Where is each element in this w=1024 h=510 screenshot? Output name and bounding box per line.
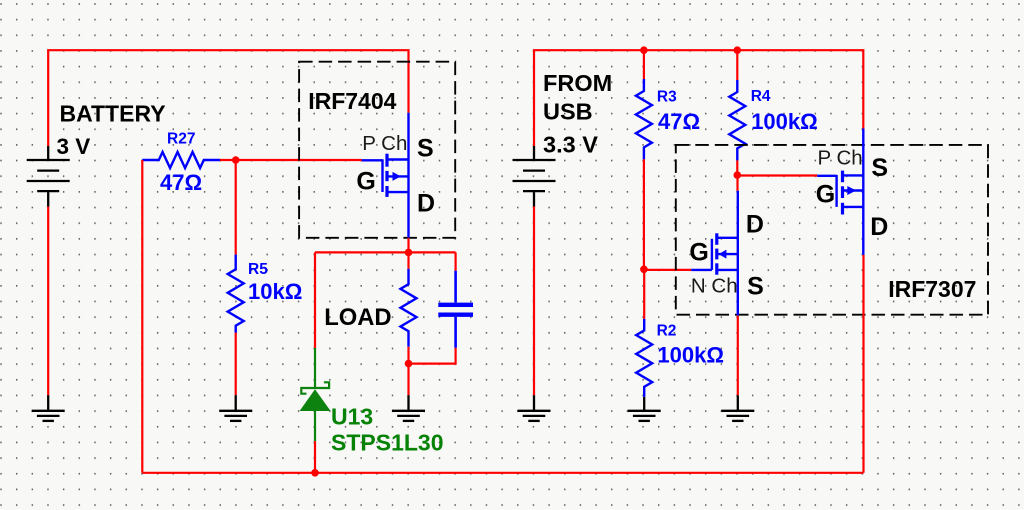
svg-text:G: G (356, 167, 375, 195)
svg-text:P Ch: P Ch (362, 132, 407, 155)
svg-text:BATTERY: BATTERY (60, 101, 166, 127)
wire load resistor bottom (407, 347, 409, 364)
svg-text:R3: R3 (657, 88, 677, 105)
diode U13 STPS1L30 schottky (301, 348, 329, 441)
wire junction down to R5 (235, 160, 237, 255)
resistor R3 (636, 79, 652, 159)
svg-text:S: S (747, 273, 764, 301)
wire battery V1 minus to ground (47, 207, 49, 396)
svg-text:S: S (871, 154, 888, 182)
resistor R4 (729, 80, 745, 160)
svg-text:LOAD: LOAD (324, 304, 391, 331)
wire Q1 drain to load node (407, 238, 409, 253)
wire bottom net (142, 472, 863, 474)
ground GND5 R2 (628, 397, 661, 421)
wire R27 left to bottom net (141, 160, 143, 473)
wire node to Q2 gate (737, 174, 817, 176)
svg-text:G: G (689, 239, 708, 267)
transistor Q1 IRF7404 P-MOSFET (362, 113, 409, 238)
wire R27 right to Q1 gate (220, 159, 362, 161)
svg-text:D: D (417, 190, 435, 218)
ground GND3 (392, 395, 425, 421)
wire load top rail (315, 251, 456, 253)
svg-text:R27: R27 (167, 131, 195, 148)
wire R5 bottom to ground (235, 333, 237, 396)
svg-text:R2: R2 (657, 323, 677, 340)
svg-text:R4: R4 (751, 88, 771, 105)
svg-text:47Ω: 47Ω (658, 109, 700, 134)
node junction R3/R2/Q3 gate (640, 266, 648, 274)
svg-text:IRF7404: IRF7404 (308, 88, 396, 114)
resistor R5 (228, 255, 244, 333)
IRF7404 dashed box (299, 62, 455, 238)
wire load bottom to ground (407, 364, 409, 396)
wire diode anode to bottom net (314, 441, 316, 473)
wire node down to Q3 drain (736, 175, 738, 191)
svg-text:100kΩ: 100kΩ (751, 109, 818, 134)
svg-text:USB: USB (543, 98, 593, 124)
svg-text:3 V: 3 V (57, 134, 91, 159)
wire gate node down to R2 (643, 269, 645, 319)
svg-text:STPS1L30: STPS1L30 (331, 430, 444, 456)
svg-text:N Ch: N Ch (691, 274, 738, 297)
wire USB VCC net: battery V2 to top rail to Q2 source (534, 50, 863, 146)
wire Q3 source to ground (737, 316, 739, 396)
resistor R2 (636, 319, 652, 397)
node junction R4/Q2 gate/Q3 drain (734, 171, 742, 179)
node junction diode bottom (311, 469, 319, 477)
ground GND4 (518, 395, 551, 421)
ground GND1 (32, 395, 65, 421)
wire gate node to Q3 gate (644, 269, 691, 271)
wire battery V2 minus to ground (533, 207, 535, 396)
wire cap bottom to load bottom junction (409, 348, 456, 364)
ground GND2 (219, 395, 252, 421)
svg-text:100kΩ: 100kΩ (657, 343, 724, 368)
battery V1 3V (27, 146, 70, 207)
battery V2 3.3V (513, 146, 556, 207)
transistor Q3 IRF7307 N-MOSFET (691, 191, 738, 316)
node junction top R4 (734, 46, 742, 54)
wire top rail to R4 (736, 50, 738, 80)
node junction load top (405, 249, 413, 257)
resistor LOAD (401, 269, 417, 347)
node junction top R3 (640, 46, 648, 54)
wire load center top (407, 252, 409, 268)
svg-text:S: S (417, 135, 434, 163)
svg-text:R5: R5 (248, 261, 268, 278)
wire cap branch top (455, 252, 457, 270)
wire load left down to diode (314, 252, 316, 348)
wire R3 bottom to gate node (643, 159, 645, 269)
wire Q2 drain down to bottom net (862, 255, 864, 473)
node junction load bottom (405, 360, 413, 368)
svg-text:3.3 V: 3.3 V (543, 132, 598, 158)
resistor R27 (142, 152, 220, 168)
svg-text:47Ω: 47Ω (160, 170, 202, 195)
IRF7307 dashed box (676, 145, 988, 315)
wire R4 bottom to drain node (736, 160, 738, 175)
capacitor C1 (438, 271, 473, 348)
svg-text:10kΩ: 10kΩ (248, 279, 302, 304)
wire top rail to R3 (643, 50, 645, 79)
svg-text:U13: U13 (331, 404, 373, 430)
svg-text:G: G (816, 181, 835, 209)
wire VCC net: battery V1 plus to top rail to Q1 source (48, 50, 408, 146)
transistor Q2 IRF7307 P-MOSFET (817, 129, 863, 255)
ground GND6 (721, 395, 754, 421)
svg-text:P Ch: P Ch (818, 146, 863, 169)
svg-text:FROM: FROM (543, 70, 612, 96)
node junction R27/R5/gate (232, 156, 240, 164)
svg-text:IRF7307: IRF7307 (888, 276, 976, 302)
svg-text:D: D (870, 213, 888, 241)
svg-text:D: D (746, 210, 764, 238)
